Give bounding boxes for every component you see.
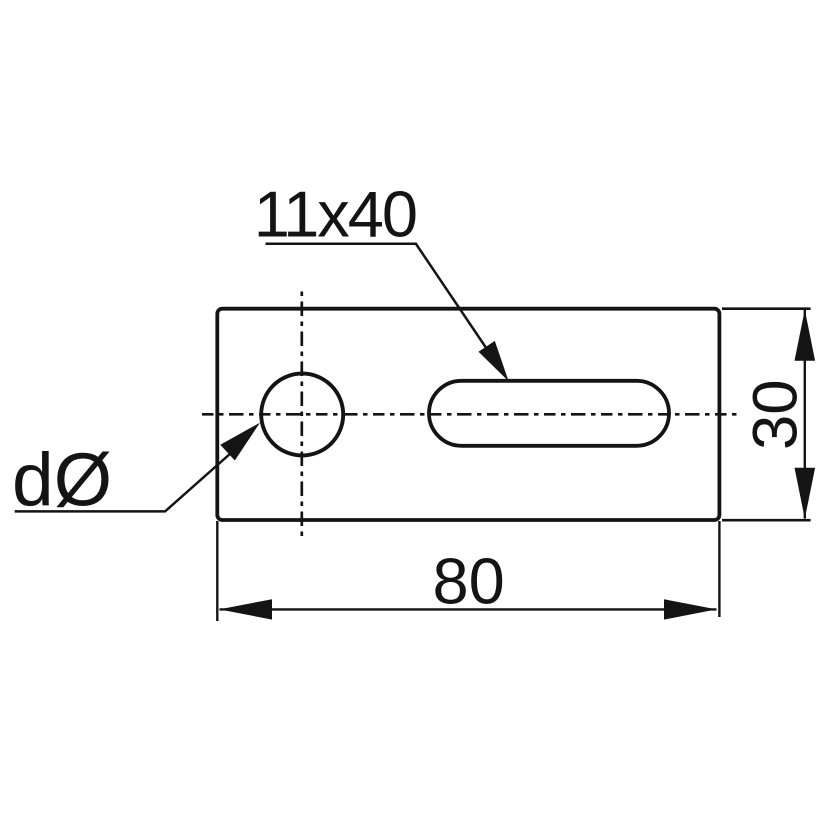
leader line for 11x40 (266, 244, 498, 364)
extension line left (dim 80) (216, 521, 218, 621)
dimension line 30 (804, 310, 806, 519)
svg-text:11x40: 11x40 (254, 177, 416, 250)
extension line bottom (dim 30) (722, 519, 811, 522)
svg-text:30: 30 (741, 379, 811, 450)
extension line top (dim 30) (722, 307, 811, 310)
hole circle (261, 374, 343, 456)
arrowhead 80 left (219, 599, 272, 619)
arrowhead 80 right (664, 599, 717, 619)
slot 11x40 (429, 381, 669, 446)
plate outline (217, 309, 719, 520)
horizontal centerline (202, 413, 738, 416)
leader line for dØ (15, 445, 240, 511)
extension line right (dim 80) (718, 521, 720, 617)
svg-text:dØ: dØ (12, 438, 112, 522)
vertical centerline (300, 292, 303, 537)
leader arrowhead to hole (220, 423, 260, 461)
arrowhead 30 bottom (795, 468, 816, 519)
dimension line 80 (220, 608, 717, 610)
svg-text:80: 80 (432, 544, 504, 617)
leader arrowhead to slot (479, 341, 509, 381)
arrowhead 30 top (795, 310, 816, 361)
